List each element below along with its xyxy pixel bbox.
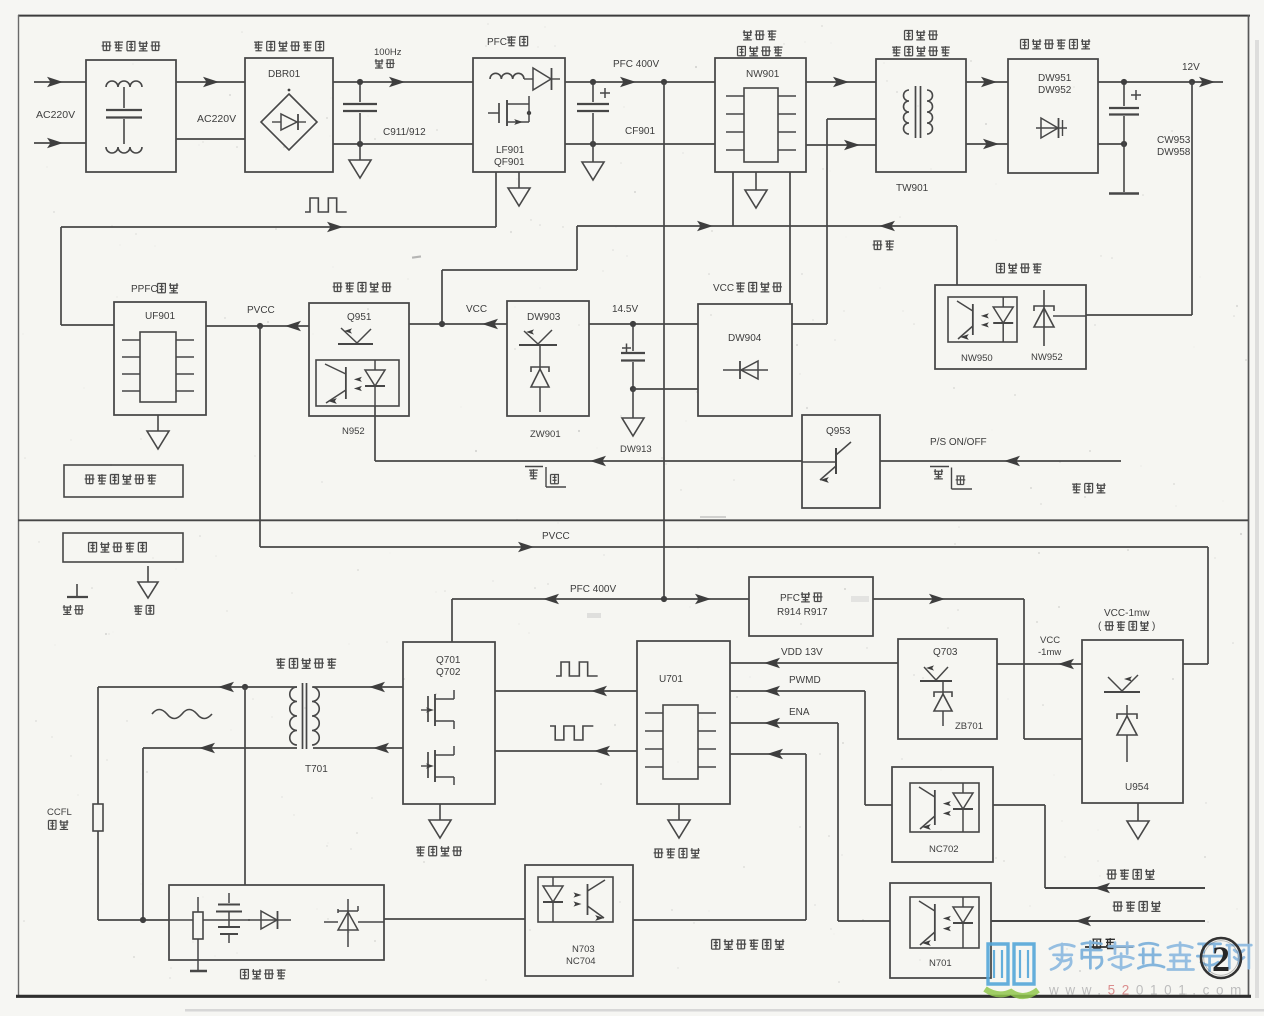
svg-text:NC702: NC702 bbox=[929, 844, 959, 855]
svg-text:-1mw: -1mw bbox=[1038, 647, 1061, 658]
svg-text:U701: U701 bbox=[659, 674, 683, 685]
svg-text:C911/912: C911/912 bbox=[383, 127, 426, 138]
svg-text:PFC: PFC bbox=[487, 37, 507, 48]
svg-text:NC704: NC704 bbox=[566, 956, 596, 967]
svg-text:2: 2 bbox=[1212, 939, 1230, 979]
svg-text:PPFC: PPFC bbox=[131, 284, 158, 295]
svg-text:DW951: DW951 bbox=[1038, 73, 1072, 84]
svg-text:VCC: VCC bbox=[1040, 635, 1060, 646]
svg-text:UF901: UF901 bbox=[145, 311, 175, 322]
svg-text:NW952: NW952 bbox=[1031, 352, 1063, 363]
svg-text:Q701: Q701 bbox=[436, 655, 461, 666]
svg-text:12V: 12V bbox=[1182, 62, 1200, 73]
svg-text:CF901: CF901 bbox=[625, 126, 655, 137]
svg-text:Q951: Q951 bbox=[347, 312, 372, 323]
svg-text:ZW901: ZW901 bbox=[530, 429, 561, 440]
svg-text:N703: N703 bbox=[572, 944, 595, 955]
svg-text:CW953: CW953 bbox=[1157, 135, 1191, 146]
svg-text:14.5V: 14.5V bbox=[612, 304, 638, 315]
svg-text:): ) bbox=[1152, 621, 1155, 632]
svg-text:VCC-1mw: VCC-1mw bbox=[1104, 608, 1150, 619]
svg-text:LF901: LF901 bbox=[496, 145, 525, 156]
svg-text:AC220V: AC220V bbox=[36, 109, 75, 121]
svg-text:DW913: DW913 bbox=[620, 444, 652, 455]
svg-text:www.520101.com: www.520101.com bbox=[1048, 983, 1248, 998]
svg-text:VCC: VCC bbox=[466, 304, 487, 315]
svg-text:DW904: DW904 bbox=[728, 333, 762, 344]
svg-text:NW901: NW901 bbox=[746, 69, 780, 80]
svg-text:100Hz: 100Hz bbox=[374, 47, 402, 58]
svg-text:ENA: ENA bbox=[789, 707, 810, 718]
svg-text:U954: U954 bbox=[1125, 782, 1149, 793]
svg-text:Q703: Q703 bbox=[933, 647, 958, 658]
svg-text:TW901: TW901 bbox=[896, 183, 929, 194]
svg-text:N952: N952 bbox=[342, 426, 365, 437]
svg-text:PVCC: PVCC bbox=[542, 531, 570, 542]
svg-text:PVCC: PVCC bbox=[247, 305, 275, 316]
svg-text:PWMD: PWMD bbox=[789, 675, 821, 686]
svg-text:PFC: PFC bbox=[780, 593, 800, 604]
svg-text:ZB701: ZB701 bbox=[955, 721, 983, 732]
svg-text:VDD 13V: VDD 13V bbox=[781, 647, 823, 658]
svg-text:PFC 400V: PFC 400V bbox=[613, 59, 659, 70]
svg-text:DBR01: DBR01 bbox=[268, 69, 301, 80]
svg-text:CCFL: CCFL bbox=[47, 807, 72, 818]
svg-text:R914 R917: R914 R917 bbox=[777, 607, 828, 618]
svg-text:Q953: Q953 bbox=[826, 426, 851, 437]
svg-text:QF901: QF901 bbox=[494, 157, 525, 168]
svg-text:DW952: DW952 bbox=[1038, 85, 1072, 96]
svg-text:DW903: DW903 bbox=[527, 312, 561, 323]
svg-text:Q702: Q702 bbox=[436, 667, 461, 678]
svg-text:DW958: DW958 bbox=[1157, 147, 1191, 158]
svg-text:T701: T701 bbox=[305, 764, 328, 775]
svg-text:N701: N701 bbox=[929, 958, 952, 969]
svg-text:P/S ON/OFF: P/S ON/OFF bbox=[930, 437, 987, 448]
svg-text:VCC: VCC bbox=[713, 283, 734, 294]
svg-text:AC220V: AC220V bbox=[197, 113, 236, 125]
svg-text:PFC 400V: PFC 400V bbox=[570, 584, 616, 595]
svg-text:NW950: NW950 bbox=[961, 353, 993, 364]
